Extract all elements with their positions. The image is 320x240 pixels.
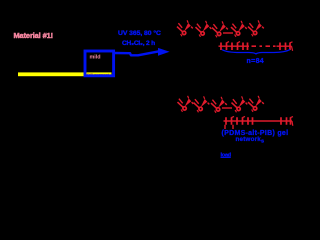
- pink label "mild" inside box: [90, 55, 101, 61]
- bottom blue caption line 2: [236, 136, 265, 144]
- top backbone chain with repeat ticks: [219, 42, 293, 51]
- reagent text line 2 above arrow: [122, 40, 155, 47]
- svg-text:UV 365, 80 °C: UV 365, 80 °C: [118, 29, 161, 37]
- top product row: monomer unit 5: [248, 20, 264, 36]
- bottom product row: monomer unit 5: [248, 96, 264, 112]
- reaction arrow (blue): [115, 48, 170, 56]
- top product row: monomer unit 3: [212, 21, 228, 37]
- reagent text line 1 above arrow: [118, 29, 161, 37]
- top product row: monomer unit 2: [196, 21, 212, 37]
- blue repeat-count label under brace: [247, 58, 265, 65]
- dark red label on yellow bar: [87, 72, 110, 77]
- svg-text:Material #1!: Material #1!: [14, 31, 53, 40]
- highlighted label "Material!" (top-left pink text): [14, 31, 53, 40]
- yellow polymer chain bar: [18, 72, 112, 76]
- bottom product row: monomer unit 1: [178, 96, 194, 112]
- svg-text:CH₂Cl₂, 2 h: CH₂Cl₂, 2 h: [122, 40, 155, 47]
- bottom row connector bond: [222, 107, 232, 109]
- bottom blue caption line 1: [222, 130, 289, 137]
- top product row: monomer unit 1: [177, 20, 193, 36]
- bottom product row: monomer unit 4: [232, 96, 248, 112]
- small blue footnote label: [221, 153, 232, 159]
- svg-text:mild: mild: [90, 55, 101, 61]
- bottom backbone chain with repeat ticks: [224, 116, 294, 129]
- top product row: monomer unit 4: [231, 21, 247, 37]
- bottom product row: monomer unit 2: [194, 96, 210, 112]
- top row connector bond: [223, 32, 233, 34]
- blue underbrace for top chain: [222, 50, 290, 54]
- bottom product row: monomer unit 3: [211, 97, 227, 113]
- blue highlight box: [85, 51, 114, 76]
- svg-text:n=84: n=84: [247, 58, 265, 65]
